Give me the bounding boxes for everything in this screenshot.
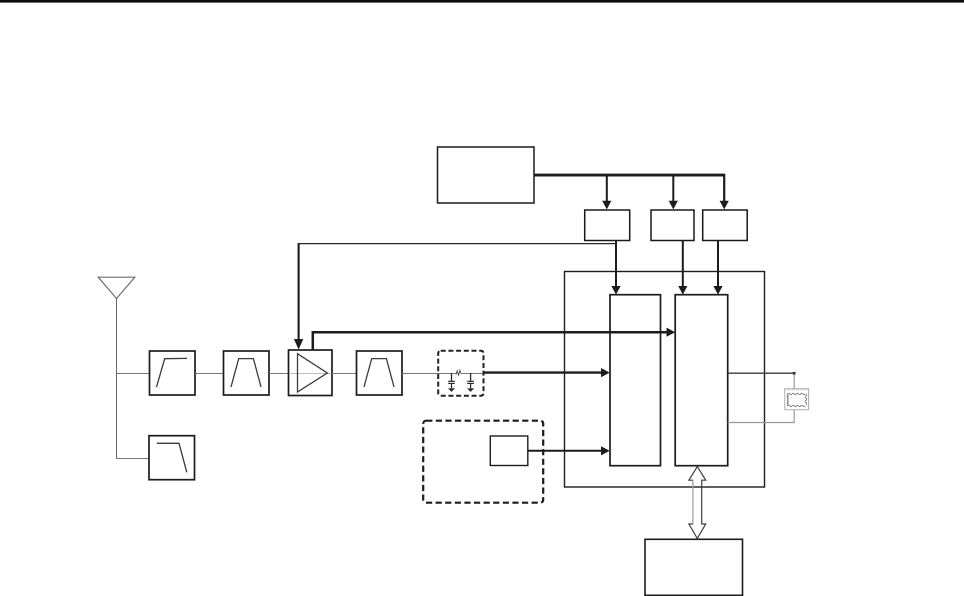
shunt capacitor 1 [448,373,455,392]
wire amplified IF arrow into right tall block [313,328,675,350]
wire divider2 to right tall block [678,241,687,295]
wire divider1 to left tall block [611,241,620,295]
shunt capacitor 2 [467,373,474,392]
arrowhead into divider box 1 [602,201,611,210]
reference box inside dashed box [490,436,528,466]
right tall block [675,295,728,466]
page top edge bar [0,0,964,3]
control interface dashed box [423,421,543,503]
wire right tall block to connector lower [728,410,795,423]
left tall block [610,295,661,466]
divider box 2 [651,210,694,241]
wire right tall block to connector upper [728,372,796,389]
wire antenna to high-pass filter [117,373,150,375]
wire antenna to low-pass filter [116,458,149,460]
divider box 1 [585,210,630,241]
arrowhead into divider box 3 [720,201,729,210]
wire BPF2 to matching network [402,373,484,375]
wire BPF1 to amplifier [269,373,289,375]
low-pass filter block [149,436,195,480]
chip outer box [565,272,765,488]
matching network dashed box [438,351,483,396]
band-pass filter 2 block [357,351,403,395]
inductor mark on line [456,370,461,375]
wire HPF to band-pass filter 1 [195,373,224,375]
amplifier block [289,350,333,396]
host interface box [645,539,743,595]
antenna [98,277,135,298]
wire antenna stem [116,299,118,459]
wire divider3 to right tall block [713,241,722,295]
crystal oscillator box [438,147,535,203]
wire AGC control to amplifier [294,243,616,350]
wire IF signal arrow into left tall block [484,368,610,377]
band-pass filter 1 block [224,351,270,395]
wire clock bus [534,174,724,201]
divider box 3 [703,210,748,241]
high-pass filter block [150,351,196,395]
wire reference arrow into left tall block [528,446,610,455]
wire amplifier to band-pass filter 2 [332,373,357,375]
IF output connector [785,389,809,410]
bus double arrow to host box [689,467,706,539]
arrowhead into divider box 2 [669,201,678,210]
